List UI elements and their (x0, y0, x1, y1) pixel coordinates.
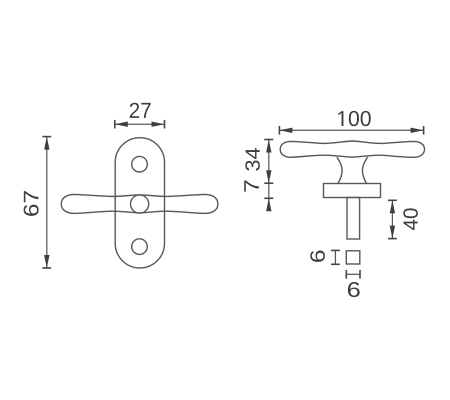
dimension 67 (42, 137, 51, 268)
dimension 100 (279, 126, 423, 135)
label 27 (130, 103, 151, 118)
hole top (132, 156, 148, 172)
dimension 40 arrowheads (390, 200, 395, 238)
hub circle (middle) (131, 195, 149, 213)
neck left edge (337, 157, 342, 184)
dimension 67 arrowheads (44, 137, 49, 268)
dimension 6 (square width) (346, 270, 360, 279)
label 100 (338, 111, 370, 126)
base plate (side view) (324, 184, 381, 198)
square spindle (346, 251, 360, 264)
dimension 6 (square height) (331, 250, 340, 264)
dimension 34/7 arrowheads (266, 140, 271, 212)
label 7 (244, 181, 259, 192)
label 6 (square width) (348, 282, 360, 297)
plate (front view stadium) (115, 138, 164, 268)
label 40 (403, 208, 418, 230)
dimension 40 (388, 200, 397, 238)
stem (347, 198, 360, 240)
neck right edge (362, 157, 367, 184)
dimension 27 arrowheads (115, 122, 165, 127)
label 34 (245, 148, 260, 171)
dimension 27 (115, 120, 165, 129)
label 67 (24, 191, 39, 216)
hole bottom (132, 239, 148, 255)
label 6 (square height) (310, 250, 325, 261)
dimension 100 arrowheads (279, 128, 423, 133)
handle wing (front view) (61, 194, 218, 213)
handle wing (side view) (280, 141, 424, 157)
dimension 34 / 7 chain (264, 140, 273, 211)
